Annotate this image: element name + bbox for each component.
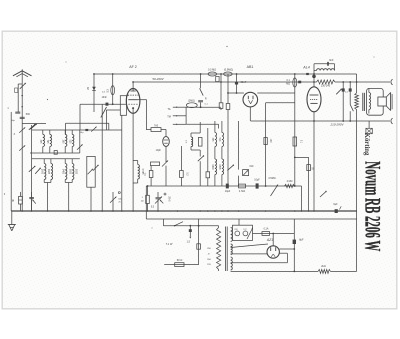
svg-text:220: 220 (234, 229, 237, 231)
svg-text:210-290V: 210-290V (329, 123, 344, 127)
svg-text:AL4: AL4 (302, 66, 309, 70)
svg-text:0805: 0805 (218, 164, 220, 170)
svg-text:Novum RB 2206 W: Novum RB 2206 W (361, 161, 386, 251)
svg-text:Körting: Körting (363, 133, 371, 156)
svg-text:AB1: AB1 (247, 65, 254, 69)
svg-text:10nF: 10nF (102, 97, 108, 99)
svg-text:4 MΩ: 4 MΩ (287, 180, 293, 183)
svg-text:MΩ: MΩ (286, 82, 290, 85)
svg-text:TA: TA (167, 108, 170, 111)
svg-text:AF 2: AF 2 (129, 65, 137, 69)
svg-text:0935: 0935 (75, 169, 77, 175)
svg-text:10pF: 10pF (156, 150, 162, 152)
svg-text:AZ1: AZ1 (266, 238, 273, 242)
svg-text:4.7kΩ: 4.7kΩ (239, 190, 246, 193)
svg-text:TM: TM (167, 115, 171, 118)
svg-text:R: R (205, 98, 207, 101)
svg-text:60 Ω: 60 Ω (177, 258, 183, 262)
svg-text:(2MΩ): (2MΩ) (188, 100, 195, 103)
svg-text:127: 127 (243, 229, 246, 231)
svg-text:6μF: 6μF (333, 203, 338, 206)
svg-text:7.1 W: 7.1 W (166, 242, 173, 246)
svg-text:(0.9MΩ): (0.9MΩ) (224, 68, 233, 71)
svg-text:0925: 0925 (47, 169, 49, 175)
svg-text:500: 500 (26, 113, 31, 116)
svg-text:2600: 2600 (40, 169, 42, 175)
svg-text:0,1A: 0,1A (264, 228, 269, 231)
svg-text:230-240: 230-240 (321, 85, 331, 88)
svg-text:50-200V: 50-200V (152, 77, 164, 81)
svg-text:8µF: 8µF (299, 239, 304, 242)
svg-text:33nF: 33nF (241, 81, 247, 84)
svg-text:0400: 0400 (61, 169, 63, 175)
svg-text:28+5: 28+5 (168, 196, 170, 202)
svg-text:6nF: 6nF (329, 59, 334, 62)
svg-text:7A5: 7A5 (154, 124, 159, 127)
svg-text:10µF: 10µF (254, 178, 260, 181)
svg-text:0.585: 0.585 (141, 169, 143, 175)
svg-text:0.5MΩ: 0.5MΩ (268, 177, 275, 180)
svg-text:6nF: 6nF (250, 165, 255, 168)
svg-text:0935: 0935 (68, 169, 70, 175)
svg-text:kΩ: kΩ (141, 200, 144, 202)
svg-text:0.3 MΩ: 0.3 MΩ (208, 68, 216, 71)
svg-text:0400: 0400 (211, 164, 213, 170)
svg-text:2kΩ: 2kΩ (321, 265, 326, 268)
svg-text:10µF: 10µF (225, 190, 231, 193)
